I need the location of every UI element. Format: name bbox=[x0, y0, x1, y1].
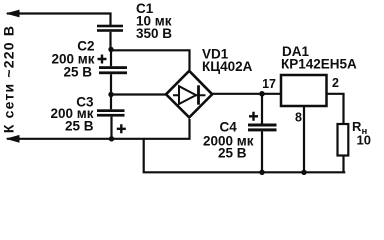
label RН bbox=[352, 119, 371, 148]
label C1 value bbox=[136, 1, 172, 41]
svg-text:2: 2 bbox=[332, 76, 339, 90]
wire: bottom mains lead to bridge AC bottom corner bbox=[7, 119, 190, 139]
wire: junction to bridge left corner bbox=[111, 93, 166, 95]
voltage regulator DA1 box bbox=[281, 75, 327, 106]
label VD1 bbox=[202, 47, 253, 74]
svg-text:КР142ЕН5А: КР142ЕН5А bbox=[281, 57, 357, 72]
svg-text:350 В: 350 В bbox=[136, 26, 172, 41]
capacitor C3 bbox=[97, 95, 125, 139]
label C2 value bbox=[51, 38, 94, 79]
polarity + of C4 bbox=[249, 112, 258, 121]
node: C1 / C2 / bridge AC1 junction bbox=[108, 47, 113, 52]
rectifier bridge VD1 bbox=[166, 71, 212, 118]
wire: regulator common pin to negative rail bbox=[303, 107, 305, 173]
node: pin 8 / rail junction bbox=[301, 170, 306, 175]
svg-text:25 В: 25 В bbox=[218, 146, 247, 161]
wire: top mains lead to C1 bbox=[7, 14, 111, 26]
arrow: mains top terminal bbox=[6, 10, 20, 18]
wire: negative rail bbox=[144, 139, 346, 173]
node: C4 negative junction bbox=[259, 170, 264, 175]
svg-text:25 В: 25 В bbox=[65, 119, 94, 134]
arrow: mains bottom terminal bbox=[6, 135, 20, 143]
polarity + of C3 bbox=[117, 124, 126, 133]
capacitor C1 bbox=[97, 25, 123, 49]
svg-text:КЦ402А: КЦ402А bbox=[202, 59, 253, 74]
svg-text:К сети ~220 В: К сети ~220 В bbox=[1, 25, 17, 133]
node: C3 / mains bottom junction bbox=[109, 136, 114, 141]
label C3 value bbox=[50, 95, 94, 134]
svg-text:25 В: 25 В bbox=[63, 65, 92, 80]
node: C2 / C3 / bridge minus junction bbox=[108, 92, 113, 97]
wire: bridge plus output to regulator input bbox=[212, 93, 281, 95]
wire: junction to bridge AC top corner bbox=[111, 50, 190, 70]
capacitor C4 bbox=[248, 96, 277, 172]
node: C4 positive junction bbox=[259, 91, 265, 97]
svg-text:17: 17 bbox=[262, 77, 276, 91]
svg-text:10: 10 bbox=[357, 132, 371, 147]
wire: regulator output to load resistor bbox=[327, 94, 344, 124]
capacitor C2 bbox=[99, 50, 127, 95]
label DA1 bbox=[281, 44, 357, 72]
resistor RН bbox=[338, 124, 349, 172]
label C4 value bbox=[203, 120, 254, 161]
svg-text:8: 8 bbox=[295, 111, 302, 125]
polarity + of C2 bbox=[98, 55, 107, 64]
